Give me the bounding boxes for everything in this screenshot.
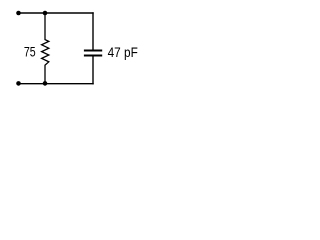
- wire: capacitor C1 top lead (corner down to top plate): [92, 12, 94, 49]
- svg-text:47 pF: 47 pF: [108, 44, 139, 60]
- svg-text:75: 75: [24, 45, 36, 61]
- node B junction dot (bottom of R1): [43, 81, 48, 86]
- node A junction dot (top of R1): [43, 11, 48, 16]
- terminal dot: top-left input terminal: [16, 11, 21, 16]
- wire: top rail, left terminal to node A: [19, 12, 46, 14]
- wire: bottom rail, capacitor corner to node B: [45, 83, 94, 85]
- capacitor C1 bottom plate: [84, 54, 102, 56]
- terminal dot: bottom-left input terminal: [16, 81, 21, 86]
- wire: bottom rail, node B to left terminal: [19, 83, 46, 85]
- resistor R1 (zigzag with leads): [42, 13, 49, 84]
- capacitor C1 top plate: [84, 49, 102, 51]
- wire: top rail, node A to capacitor branch corner: [45, 12, 94, 14]
- wire: capacitor C1 bottom lead (bottom plate down to corner): [92, 57, 94, 85]
